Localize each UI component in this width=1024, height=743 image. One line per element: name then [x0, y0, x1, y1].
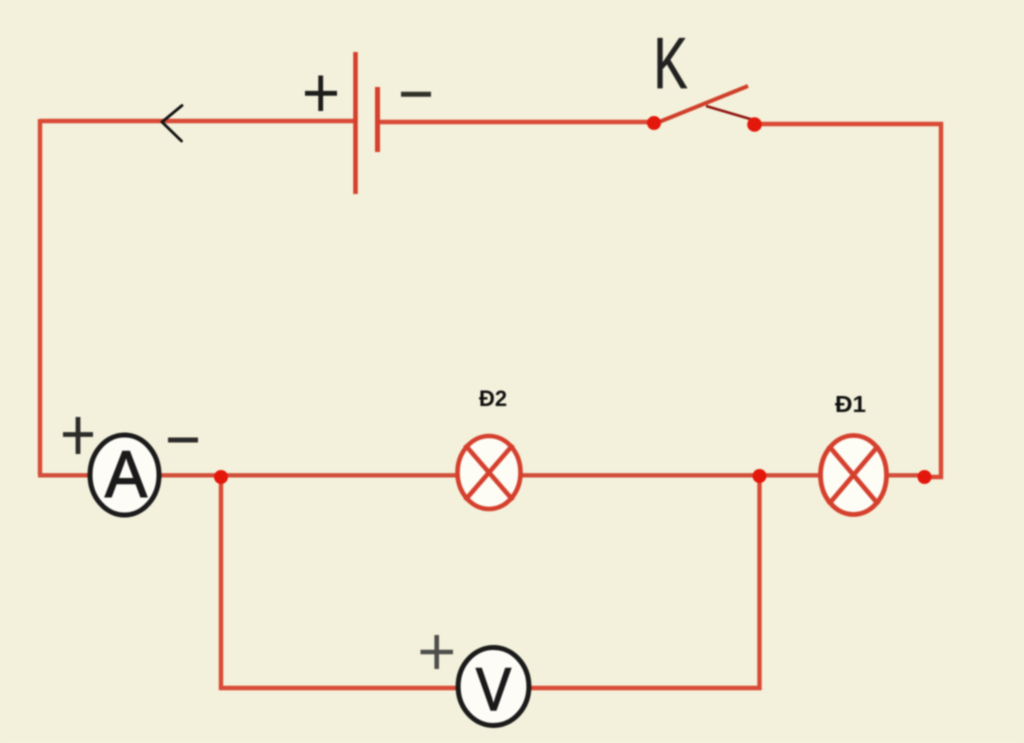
svg-text:Đ2: Đ2	[479, 386, 507, 411]
svg-text:Đ1: Đ1	[835, 391, 866, 417]
svg-text:A: A	[105, 437, 147, 511]
svg-text:K: K	[654, 24, 688, 104]
svg-text:V: V	[476, 656, 511, 723]
